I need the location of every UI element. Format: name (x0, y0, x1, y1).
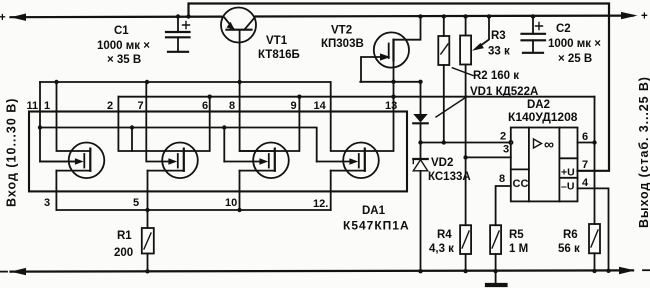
svg-text:VD2: VD2 (431, 157, 453, 169)
IC DA1 box (29, 112, 407, 192)
wire R3 wiper from rail (472, 14, 491, 51)
svg-text:–U: –U (561, 181, 574, 193)
wire R4 top lead (465, 157, 467, 225)
label R1 (114, 230, 133, 259)
svg-text:× 35 В: × 35 В (107, 54, 141, 66)
svg-text:DA1: DA1 (362, 205, 386, 217)
wire bus C substrate inside DA1 (40, 128, 317, 162)
wire pin 8 to R5 (496, 186, 511, 225)
node bus C left (38, 125, 42, 129)
label VT1 (258, 35, 300, 61)
svg-text:200: 200 (114, 247, 133, 259)
wire VT1 base to bus A and DA1 pin 8 (240, 31, 275, 151)
wire pin 7 to FET2 substrate (146, 82, 169, 162)
svg-text:8: 8 (499, 173, 505, 185)
svg-text:9: 9 (291, 100, 297, 112)
transistor FET3 of DA1 (240, 143, 289, 179)
svg-text:2: 2 (107, 100, 113, 112)
node pin 3 divider (463, 155, 467, 159)
svg-text:R6: R6 (563, 229, 578, 241)
wire FET3 source to pin 10 (239, 171, 241, 210)
svg-text:13: 13 (385, 100, 397, 112)
svg-text:КП303В: КП303В (321, 38, 364, 50)
wire bus A gates-substrate upper (40, 81, 330, 83)
transistor FET4 of DA1 (331, 143, 379, 179)
zener VD2 (413, 143, 427, 272)
svg-text:7: 7 (138, 100, 144, 112)
svg-text:56 к: 56 к (558, 243, 580, 255)
svg-text:6: 6 (582, 131, 588, 143)
svg-text:1000 мк ×: 1000 мк × (548, 38, 601, 50)
wire bottom rail with arrows (11, 267, 636, 276)
label R4 (429, 229, 454, 255)
label R6 (558, 229, 580, 255)
node tie at pin 13 riser (391, 80, 395, 84)
op-amp DA2 (511, 128, 578, 202)
svg-text:2: 2 (500, 131, 506, 143)
node rail R5 (493, 269, 497, 273)
svg-text:R1: R1 (117, 230, 132, 242)
node bus A VT1 base (237, 80, 241, 84)
wire top rail left segment with left arrow (11, 14, 222, 21)
node pin 6 junction (592, 140, 596, 144)
label VD2 (428, 157, 471, 183)
node L1 at R2 (442, 140, 446, 144)
node junction bypass riser on rail (186, 14, 190, 18)
svg-text:+: + (0, 12, 6, 24)
node bus A pin 1 (54, 80, 58, 84)
svg-text:3: 3 (503, 144, 509, 156)
svg-text:10: 10 (225, 197, 237, 209)
diode VD1 (413, 82, 427, 143)
node bus B VT2 source (391, 95, 395, 99)
node minus label right (643, 269, 650, 271)
node VT2 drain on rail (418, 14, 422, 18)
node bus A pin 7 (145, 80, 149, 84)
wire bottom source bus (56, 209, 330, 211)
svg-text:КТ816Б: КТ816Б (258, 49, 300, 61)
svg-text:14: 14 (314, 100, 327, 112)
svg-text:1000 мк ×: 1000 мк × (97, 40, 150, 52)
ground symbol (487, 271, 506, 285)
node rail R1 (145, 269, 149, 273)
svg-text:К140УД1208: К140УД1208 (508, 110, 578, 124)
svg-text:C2: C2 (556, 23, 571, 35)
wire pin 14 to FET4 gate stub (331, 82, 394, 151)
svg-text:R5: R5 (509, 229, 524, 241)
transistor VT1 (221, 8, 256, 43)
label VT2 (321, 25, 364, 51)
wire FET3 gate stub and pin 9 riser (240, 97, 300, 151)
resistor R2 (438, 14, 449, 142)
node rail R6 (592, 269, 596, 273)
node bus bottom R1 (145, 208, 149, 212)
node minus label left (1, 271, 8, 273)
wire pin 2 input line (421, 142, 509, 144)
capacitor C2 (522, 14, 546, 53)
svg-text:R3: R3 (491, 30, 506, 42)
resistor R1 (142, 228, 154, 271)
svg-text:4: 4 (582, 177, 589, 189)
label R5 (509, 229, 528, 255)
resistor R4 (460, 225, 471, 271)
svg-text:4,3 к: 4,3 к (429, 243, 454, 255)
svg-text:+U: +U (561, 167, 575, 179)
wire FET3 substrate lead (224, 161, 260, 163)
node bus C FET2 riser (130, 125, 134, 129)
node L1 at VD1 (418, 140, 422, 144)
svg-text:R2 160 к: R2 160 к (473, 70, 519, 82)
node bus bottom pin 10 (237, 208, 241, 212)
svg-text:Выход (стаб. 3...25 В): Выход (стаб. 3...25 В) (637, 76, 650, 228)
svg-text:VT1: VT1 (266, 35, 288, 47)
node rail pin 4 (606, 269, 610, 273)
wire FET4 substrate lead (317, 161, 351, 163)
label R3 (488, 30, 510, 58)
wire pin 6 output (578, 142, 595, 144)
label DA1 (343, 205, 410, 233)
wire riser bus C to FET2 gate stub (131, 128, 133, 152)
svg-text:8: 8 (229, 100, 235, 112)
node bus B pin 6 (208, 95, 212, 99)
svg-text:∞: ∞ (544, 136, 554, 152)
svg-text:33 к: 33 к (488, 46, 510, 58)
svg-text:6: 6 (202, 100, 208, 112)
svg-text:1 М: 1 М (509, 243, 528, 255)
wire FET1 source to pin 3 (55, 171, 57, 210)
node rail R4 (463, 269, 467, 273)
wire FET4 source to pin 12 (330, 171, 332, 210)
svg-text:VT2: VT2 (331, 25, 352, 37)
svg-text:Вход (10...30 В): Вход (10...30 В) (5, 98, 19, 207)
node bus C FET3 riser (222, 125, 226, 129)
svg-text:× 25 В: × 25 В (558, 53, 592, 65)
node inversion bubble pin 2 (509, 141, 513, 145)
svg-text:КС133А: КС133А (428, 171, 471, 183)
resistor R3 trimmer (460, 14, 471, 157)
label R2 with leader (452, 68, 519, 82)
svg-text:R4: R4 (437, 229, 452, 241)
transistor FET2 of DA1 (148, 143, 198, 179)
transistor VT2 (361, 17, 421, 82)
wire pin 1 to FET1 gate stub (57, 82, 91, 151)
wire pin 11 to FET1 substrate (40, 82, 76, 162)
label C1 value (97, 25, 150, 66)
svg-text:К547КП1А: К547КП1А (343, 219, 410, 233)
label C2 value (548, 23, 601, 65)
wire pin 2 to FET2 gate stub (118, 97, 209, 151)
resistor R6 (589, 224, 600, 271)
svg-text:7: 7 (582, 159, 588, 171)
wire bus B op-amp output to gates (118, 96, 594, 98)
capacitor C1 (166, 14, 190, 52)
wire gate-source tie line (360, 81, 420, 83)
svg-text:+: + (641, 11, 648, 23)
svg-text:СС: СС (513, 178, 529, 190)
resistor R5 (490, 225, 501, 271)
wire top rail right segment with right arrow (256, 12, 638, 19)
wire FET2 source to pin 5 and R1 (147, 171, 149, 228)
svg-text:3: 3 (44, 197, 50, 209)
label DA2 (508, 99, 578, 124)
wire riser bus C to FET3 substrate (223, 128, 225, 162)
svg-text:5: 5 (133, 197, 139, 209)
node rail VD2 (418, 269, 422, 273)
transistor FET1 of DA1 (40, 143, 104, 179)
wire feedback and R6 vertical (594, 97, 596, 224)
wire pin 3 input line (466, 156, 511, 158)
svg-text:1: 1 (44, 100, 50, 112)
svg-text:12.: 12. (313, 198, 328, 210)
svg-text:11: 11 (27, 100, 39, 112)
wire pin 4 to minus rail (578, 188, 609, 270)
svg-text:C1: C1 (114, 25, 129, 37)
node bus B pin 9 (297, 95, 301, 99)
wire bypass from input rail over top to DA2 pin 7 (189, 4, 610, 171)
label VD1 with leader (436, 86, 538, 117)
